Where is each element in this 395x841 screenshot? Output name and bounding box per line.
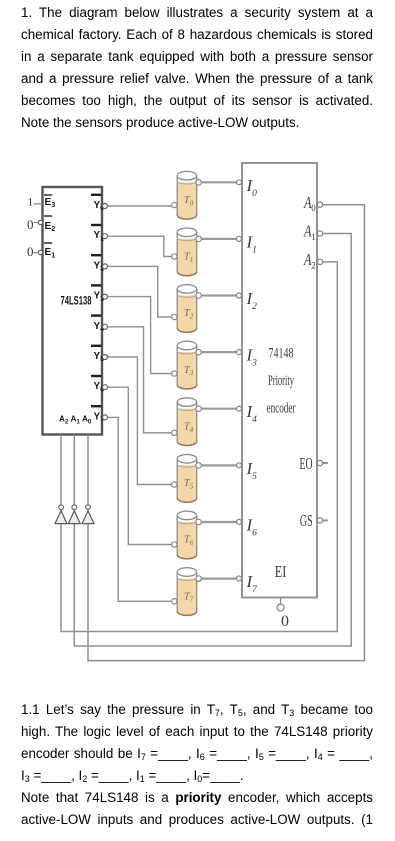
- svg-text:74148: 74148: [269, 346, 294, 362]
- svg-text:74LS138: 74LS138: [61, 296, 92, 308]
- svg-text:1: 1: [28, 197, 34, 209]
- svg-text:I3: I3: [246, 346, 258, 369]
- svg-text:I7: I7: [246, 572, 259, 595]
- svg-text:I6: I6: [246, 515, 258, 538]
- svg-text:I1: I1: [246, 232, 257, 255]
- svg-text:Priority: Priority: [268, 373, 294, 389]
- svg-text:GS: GS: [300, 511, 313, 530]
- svg-text:0: 0: [311, 203, 316, 213]
- svg-text:0: 0: [27, 244, 34, 259]
- svg-text:I0: I0: [246, 176, 258, 199]
- svg-text:EO: EO: [300, 454, 313, 473]
- svg-text:0: 0: [281, 613, 289, 630]
- svg-text:I4: I4: [246, 402, 258, 425]
- svg-text:EI: EI: [275, 562, 287, 581]
- svg-text:1: 1: [311, 232, 316, 242]
- svg-text:I2: I2: [246, 289, 258, 312]
- svg-text:2: 2: [311, 260, 316, 270]
- svg-text:encoder: encoder: [267, 401, 296, 417]
- svg-text:I5: I5: [246, 459, 258, 482]
- svg-text:0: 0: [27, 217, 34, 232]
